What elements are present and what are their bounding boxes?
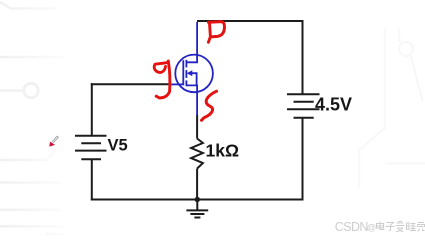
svg-text:4.5V: 4.5V xyxy=(315,95,352,115)
wire resistor bottom xyxy=(196,169,198,200)
annotation g (red) xyxy=(154,61,170,98)
wire left vertical lower xyxy=(91,159,93,200)
channel segment top xyxy=(185,60,187,68)
body lead with arrow xyxy=(191,73,197,85)
annotation S (red) xyxy=(202,91,217,120)
faint pcb trace diagonal y160 xyxy=(0,149,56,160)
ground xyxy=(186,200,208,218)
junction node xyxy=(195,197,200,202)
svg-text:CSDN: CSDN xyxy=(335,220,369,234)
channel segment middle xyxy=(185,70,187,78)
faint logo right side xyxy=(359,28,425,188)
gate lead xyxy=(169,83,183,85)
wire right vertical upper xyxy=(302,20,304,94)
watermark glyph 睡 xyxy=(407,223,417,231)
gate bar xyxy=(182,60,184,85)
faint pcb trace line y57 xyxy=(0,56,62,59)
watermark glyph 爱 xyxy=(396,222,405,232)
wire top horizontal (drain to 4.5V) xyxy=(197,20,304,22)
channel segment bottom xyxy=(185,80,187,86)
watermark glyph 子 xyxy=(386,223,395,232)
faint pcb trace y182 xyxy=(0,181,61,184)
source connection xyxy=(186,85,197,115)
faint pcb trace top-left diagonal xyxy=(0,1,56,9)
faint pcb trace y210 xyxy=(0,209,61,212)
battery V5 xyxy=(75,136,107,159)
drain connection xyxy=(186,22,197,62)
faint pcb trace y226 xyxy=(0,225,62,228)
faint pcb ring xyxy=(24,83,38,97)
pen cursor xyxy=(49,136,58,146)
wire gate horizontal xyxy=(91,83,169,85)
faint pcb trace y234 xyxy=(47,233,62,236)
wire right vertical lower xyxy=(302,118,304,201)
svg-text:V5: V5 xyxy=(108,137,128,155)
faint pcb trace line y90 with ring xyxy=(0,89,22,92)
annotation D (red) xyxy=(208,22,224,43)
watermark glyph 电 xyxy=(377,222,425,232)
watermark glyph 觉 xyxy=(418,223,425,232)
resistor R1 xyxy=(191,139,203,169)
svg-text:@: @ xyxy=(367,223,377,234)
transistor Q1 (NMOS) xyxy=(169,22,213,116)
svg-text:1kΩ: 1kΩ xyxy=(206,141,240,161)
wire left vertical upper xyxy=(91,83,93,136)
arrowhead xyxy=(187,70,193,76)
mosfet body circle xyxy=(175,55,213,93)
battery 4.5V xyxy=(287,94,320,118)
wire bottom horizontal xyxy=(91,199,304,201)
wire resistor top (black part) xyxy=(196,115,198,139)
